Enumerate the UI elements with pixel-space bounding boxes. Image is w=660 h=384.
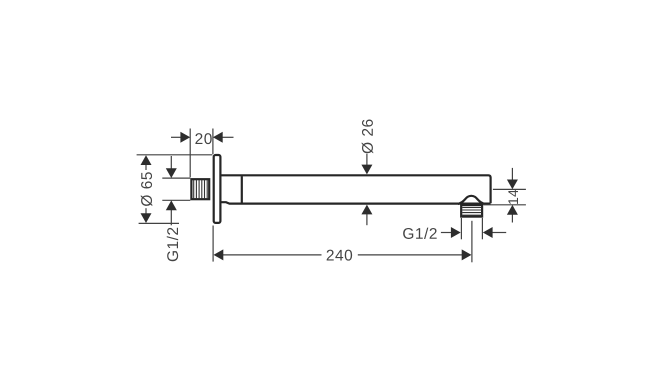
dim 14 extension line lower (thread face): [483, 204, 526, 206]
outlet thread body: [461, 205, 482, 217]
label Ø 26 (rotated): [362, 120, 374, 154]
outlet stub extension right: [481, 218, 483, 239]
tube seam: [241, 176, 243, 203]
label G1/2 left (rotated): [167, 228, 178, 262]
dim G1/2 left extension line top: [162, 177, 190, 179]
dim 14 upper stem: [511, 168, 513, 180]
Ø26 down: [361, 165, 372, 175]
label G1/2 right: [403, 228, 437, 239]
G1/2 right: points left: [483, 227, 493, 238]
240 left (points left): [214, 249, 224, 260]
dim 240 line right segment: [358, 254, 462, 256]
label 240: [327, 250, 352, 261]
flange: [214, 155, 221, 223]
Ø65 down: [141, 213, 152, 223]
dim 240 line left segment: [223, 254, 322, 256]
outlet stub extension left: [460, 218, 462, 239]
G1/2 left down: [166, 168, 177, 178]
label 14 (rotated): [508, 190, 518, 204]
G1/2 left up: [166, 200, 177, 210]
dim 20 leader right: [222, 136, 233, 138]
dim 20 extension line right: [212, 129, 214, 155]
labels drawn as glyph outlines (Liberation Sans): [141, 120, 518, 262]
dim O65 line upper stem: [145, 165, 147, 171]
G1/2 right: points right: [451, 227, 461, 238]
label Ø 65 (rotated): [141, 172, 153, 206]
label 20: [195, 133, 211, 144]
Ø26 up: [361, 205, 372, 215]
20 left (points right): [180, 132, 190, 143]
dim O26 lower stem: [366, 214, 368, 225]
arrows: [141, 132, 518, 261]
wall thread G1/2 body: [191, 179, 209, 199]
14 down: [507, 180, 518, 190]
wall thread hatch: [194, 180, 208, 199]
dim 240 extension line left: [212, 226, 214, 262]
G1/2 right label leader: [441, 232, 452, 234]
outlet centerline extension: [471, 221, 473, 262]
tube bottom edge: [222, 202, 491, 203]
arch at outlet: [458, 196, 485, 204]
dim 20 extension line left: [189, 129, 191, 178]
20 right (points left): [213, 132, 223, 143]
dim 14 lower stem: [511, 214, 513, 222]
dim 20 leader left: [171, 136, 182, 138]
G1/2 right leader right side: [492, 232, 506, 234]
240 right (points right): [462, 249, 472, 260]
dim O65 extension line bottom: [139, 222, 179, 224]
dim G1/2 left extension line bottom: [162, 199, 190, 201]
outlet thread hatch: [462, 207, 481, 215]
dim 14 extension line upper (tube axis): [493, 188, 526, 190]
dim O26 upper stem: [366, 154, 368, 165]
tube top edge + right end: [222, 175, 491, 203]
14 up: [507, 205, 518, 215]
dim G1/2 left upper stem: [170, 156, 172, 169]
dim O65 extension line top: [137, 154, 213, 156]
Ø65 up: [141, 155, 152, 165]
dim G1/2 left lower stem: [170, 210, 172, 225]
dim O65 line lower stem: [145, 208, 147, 214]
